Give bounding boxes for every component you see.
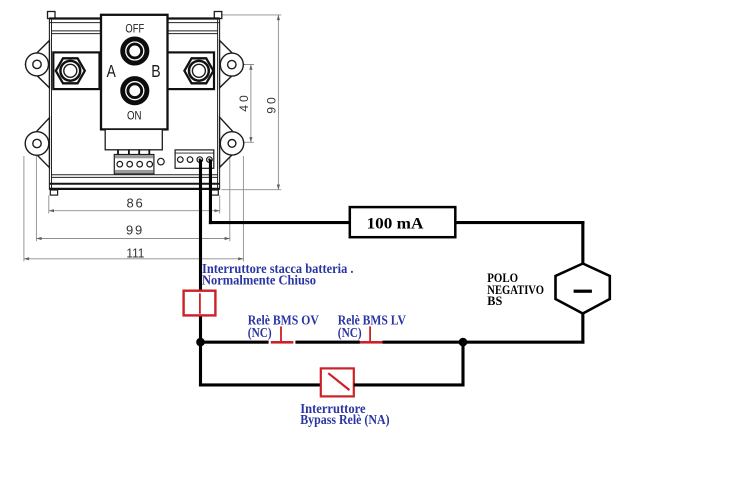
dimension label 40 [237,95,251,112]
connector block bottom-right [175,150,214,168]
svg-text:B: B [151,61,160,81]
bypass branch bottom wire right segment [354,383,465,386]
switch base plate [48,12,222,196]
label Relè BMS OV (NC) [248,313,319,340]
svg-text:Bypass Relè (NA): Bypass Relè (NA) [300,412,389,427]
dimension label 111 [126,245,144,260]
wire from switch symbol down to node A [199,315,202,343]
bypass branch left wire [199,342,202,386]
main bottom wire segment 1 [199,341,269,344]
dimension label 86 [127,196,143,211]
terminal box left [53,52,99,89]
extension line left 86 [48,195,50,213]
svg-text:BS: BS [487,294,502,308]
label ON [127,111,142,123]
switch body lower extension [105,129,162,149]
mounting tab bottom-left [25,118,49,168]
extension line 40 bottom [239,141,254,143]
node B junction dot [459,338,468,347]
dimension line 40 [249,65,252,143]
svg-text:100 mA: 100 mA [367,215,424,232]
main disconnect switch symbol (red box) [184,291,216,316]
dimension line 99 [36,237,229,240]
relay contact BMS OV (NC) [271,326,294,343]
switch key body [101,15,168,130]
label Interruttore Bypass Relè (NA) [300,401,389,427]
wire from battery pole down to main bottom wire [581,313,584,344]
label A [107,61,116,81]
node A junction dot [196,338,205,347]
dimension label 90 [265,97,279,114]
extension line right 86 [219,195,221,213]
bypass branch bottom wire left segment [199,383,321,386]
extension line 40 top [236,64,254,66]
extension line 90 bottom [222,189,282,191]
battery negative pole symbol [556,264,610,314]
relay contact BMS LV (NC) [360,326,383,343]
small hole [158,158,165,165]
extension line right 111 [242,156,244,262]
svg-text:(NC): (NC) [338,325,362,340]
knob OFF position [123,39,147,63]
extension line left 99 [35,156,37,241]
dimension line 111 [24,257,244,260]
label Interruttore stacca batteria [202,261,354,288]
svg-text:111: 111 [126,245,144,260]
main bottom wire segment 2 [295,341,360,344]
dimension line 90 [277,15,280,190]
extension line 90 top [222,14,282,16]
svg-text:OFF: OFF [125,23,144,35]
label B [151,61,160,81]
connector pins [117,150,150,156]
svg-text:Normalmente Chiuso: Normalmente Chiuso [202,272,316,287]
bypass switch symbol (red box with diagonal) [321,368,354,396]
bypass branch right wire [461,342,464,386]
label OFF [125,23,144,35]
main bottom wire segment 3 [383,341,585,344]
terminal box right [167,52,214,89]
wire from pin3 down to switch symbol [199,160,202,291]
mounting tab top-left [26,41,50,88]
svg-text:ON: ON [127,111,142,123]
mounting tab bottom-right [220,117,244,167]
mounting tab top-right [220,41,244,88]
svg-text:86: 86 [127,196,143,211]
wire from pin4 down and right to 100mA box [209,160,350,225]
svg-text:(NC): (NC) [248,325,272,340]
dimension label 99 [126,223,142,238]
extension line right 99 [229,156,231,241]
label POLO NEGATIVO BS [487,271,544,308]
dimension line 86 [49,209,220,212]
wire from 100mA box right and down to battery pole [455,221,584,265]
extension line left 111 [23,156,25,262]
knob ON position [123,79,147,103]
svg-text:A: A [107,61,116,81]
terminal block bottom-left [114,155,154,174]
fuse box 100 mA [350,207,456,237]
terminal nut B [184,58,213,83]
svg-text:99: 99 [126,223,142,238]
terminal nut A [56,58,85,83]
label Relè BMS LV (NC) [338,313,407,340]
